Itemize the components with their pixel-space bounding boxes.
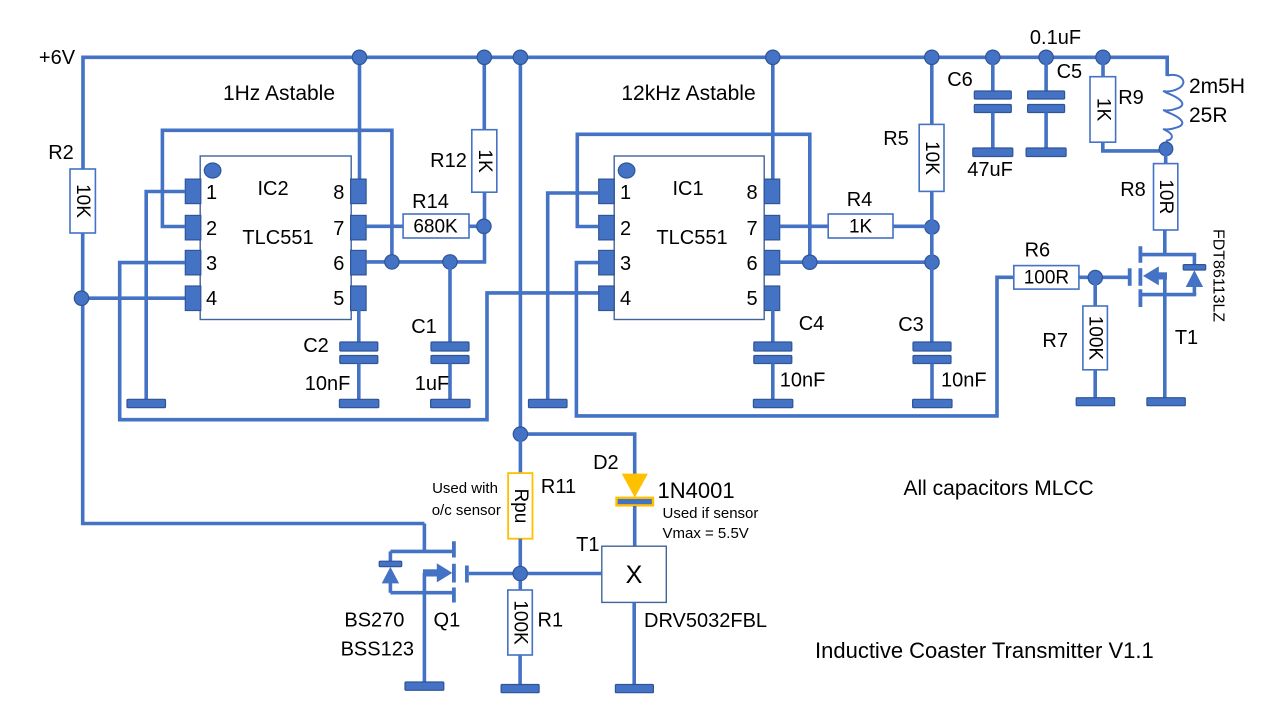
IC2 pin 2: [185, 215, 201, 240]
svg-text:1: 1: [206, 182, 217, 204]
svg-text:C4: C4: [799, 313, 825, 335]
T1 gate bar: [1128, 268, 1132, 286]
wire R1 to ground: [518, 655, 522, 685]
wire rail drop to IC1 pin8: [771, 57, 775, 180]
svg-text:47uF: 47uF: [967, 159, 1013, 181]
IC1 pin 5: [764, 286, 780, 311]
svg-text:10K: 10K: [921, 141, 942, 175]
wire IC2 pin3 output / lower-left rail to IC1 pin4: [120, 263, 599, 420]
resistor R2: [70, 169, 95, 233]
inductor L1 coil 2m5H: [1164, 75, 1184, 149]
IC2 pin 4: [185, 286, 201, 311]
svg-text:100K: 100K: [510, 600, 531, 645]
svg-text:FDT86113LZ: FDT86113LZ: [1209, 229, 1226, 322]
resistor R4: [828, 214, 893, 238]
junction dot coil/R9/R8: [1159, 142, 1173, 156]
wire R6 to T1 gate: [1079, 275, 1128, 279]
IC1 pin1 indicator dot: [618, 163, 635, 178]
svg-text:R14: R14: [412, 191, 449, 213]
wire Q1 source to ground: [423, 593, 427, 682]
svg-text:C5: C5: [1057, 61, 1083, 83]
junction dot rail/C6: [986, 50, 1000, 64]
wire IC2 pin4 feed: [82, 296, 186, 300]
capacitor C2: [357, 306, 361, 342]
Q1 body arrow: [437, 563, 453, 582]
IC1 pin 2: [599, 215, 615, 240]
ground DRV5032: [615, 685, 653, 693]
svg-text:3: 3: [620, 253, 631, 275]
T1 source stub: [1140, 293, 1196, 297]
wire X box to ground: [632, 602, 636, 684]
wire R2 bottom / left loop to Q1 drain: [83, 233, 425, 524]
svg-text:+6V: +6V: [39, 47, 76, 69]
IC1 pin 4: [599, 286, 615, 311]
svg-text:4: 4: [206, 288, 217, 310]
junction dot R6/R7: [1088, 270, 1102, 284]
resistor R11 Rpu: [519, 434, 523, 473]
Q1 channel segments: [452, 541, 456, 602]
svg-text:1: 1: [620, 182, 631, 204]
wire IC1 pin7 to R4: [780, 225, 829, 229]
resistor R5: [919, 124, 944, 191]
resistor R7: [1093, 278, 1097, 306]
svg-text:R8: R8: [1120, 179, 1146, 201]
svg-text:All capacitors MLCC: All capacitors MLCC: [904, 477, 1094, 500]
wire R14 right link: [469, 225, 485, 229]
IC2 pin 1: [185, 179, 201, 204]
svg-text:8: 8: [333, 182, 344, 204]
wire IC1 pin1 to ground: [548, 193, 599, 399]
svg-text:10nF: 10nF: [780, 370, 826, 392]
Q1 body diode: [389, 551, 393, 592]
IC2 pin 8: [351, 179, 367, 204]
T1 channel segments: [1139, 246, 1143, 307]
resistor R9: [1101, 57, 1105, 76]
IC2 pin 3: [185, 250, 201, 275]
junction dot R12/R14: [477, 219, 491, 233]
svg-text:2m5H: 2m5H: [1189, 75, 1245, 98]
sensor U2 DRV5032FBL box: [602, 546, 667, 602]
svg-text:Rpu: Rpu: [510, 488, 531, 523]
wire R11 to gate node: [518, 539, 522, 590]
junction dot rail/C5: [1039, 50, 1053, 64]
ground T1 source: [1147, 398, 1185, 406]
IC1 body: [614, 156, 764, 320]
svg-text:R1: R1: [538, 610, 564, 632]
svg-text:R6: R6: [1025, 240, 1051, 262]
junction dot rail/IC2 pin8: [352, 50, 366, 64]
svg-text:R9: R9: [1118, 87, 1144, 109]
svg-text:100K: 100K: [1085, 316, 1106, 361]
wire R8 to T1 drain: [1163, 230, 1167, 256]
junction dot rail/R9: [1096, 50, 1110, 64]
svg-text:10R: 10R: [1155, 179, 1176, 214]
IC2 pin 6: [351, 250, 367, 275]
svg-text:0.1uF: 0.1uF: [1030, 27, 1081, 49]
svg-text:8: 8: [746, 182, 757, 204]
IC2 pin 7: [351, 215, 367, 240]
junction dot rail/R12: [477, 50, 491, 64]
resistor R8: [1164, 149, 1168, 164]
svg-text:Inductive Coaster Transmitter: Inductive Coaster Transmitter V1.1: [815, 638, 1154, 663]
wire IC1 pin2 loop over top: [577, 134, 810, 262]
svg-text:25R: 25R: [1189, 104, 1228, 127]
IC1 pin 6: [764, 250, 780, 275]
svg-text:BSS123: BSS123: [341, 639, 414, 661]
wire D2 to X box: [633, 506, 637, 546]
svg-text:Used with: Used with: [432, 480, 498, 497]
wire IC2 pin2 loop over top to threshold node: [162, 130, 392, 262]
wire R11/D2 node horizontal: [520, 434, 634, 474]
svg-text:1K: 1K: [1092, 98, 1113, 122]
T1 body diode: [1193, 255, 1197, 295]
svg-text:R7: R7: [1042, 330, 1068, 352]
svg-text:IC2: IC2: [257, 178, 288, 200]
IC1 pin 3: [599, 250, 615, 275]
wire rail drop to R12: [482, 57, 486, 129]
T1 body arrow: [1143, 266, 1159, 285]
capacitor C1: [448, 262, 452, 342]
wire +6V top rail: [83, 57, 1167, 169]
svg-text:C1: C1: [411, 316, 437, 338]
ground R7: [1076, 398, 1114, 406]
svg-text:R12: R12: [430, 150, 467, 172]
svg-text:6: 6: [746, 253, 757, 275]
svg-text:DRV5032FBL: DRV5032FBL: [644, 610, 767, 632]
svg-text:C2: C2: [303, 335, 329, 357]
ground IC1 pin1: [529, 399, 568, 407]
wire R7 to ground: [1093, 370, 1097, 398]
resistor R6: [1014, 266, 1079, 290]
junction dot rail/R5: [925, 50, 939, 64]
svg-text:1N4001: 1N4001: [658, 478, 735, 503]
svg-text:R2: R2: [48, 142, 74, 164]
resistor R1: [508, 590, 533, 655]
junction dot rail/IC1 pin8: [766, 50, 780, 64]
svg-text:Used if sensor: Used if sensor: [663, 505, 759, 522]
svg-text:T1: T1: [576, 534, 599, 556]
junction dot pin2-loop / pin6 line: [385, 255, 399, 269]
wire IC2 pin7 to R14: [366, 225, 403, 229]
capacitor C6: [991, 57, 995, 91]
svg-text:100R: 100R: [1024, 268, 1069, 289]
wire IC1 pin6 line: [780, 260, 932, 264]
transistor T1 FDT86113LZ: [1130, 246, 1206, 307]
junction dot R2/IC2 pin4: [74, 291, 88, 305]
wire T1 source to ground: [1163, 295, 1167, 398]
wire gate node horizontal Q1 to X box: [469, 572, 602, 576]
IC1 pin 1: [599, 179, 615, 204]
svg-text:7: 7: [333, 218, 344, 240]
svg-text:IC1: IC1: [672, 178, 703, 200]
capacitor C4: [771, 306, 775, 342]
svg-text:7: 7: [746, 218, 757, 240]
svg-text:1K: 1K: [474, 149, 495, 173]
svg-text:Q1: Q1: [434, 610, 461, 632]
wire R4 to R5 node: [893, 225, 932, 229]
Q1 drain stub: [390, 550, 454, 554]
wire IC2 pin6 line: [366, 192, 484, 262]
Q1 gate bar: [465, 566, 469, 583]
resistor R12: [472, 130, 497, 193]
T1 drain stub: [1140, 253, 1196, 257]
svg-text:680K: 680K: [413, 217, 458, 238]
svg-text:R11: R11: [541, 476, 576, 498]
svg-text:BS270: BS270: [344, 610, 404, 632]
svg-text:1Hz Astable: 1Hz Astable: [223, 82, 335, 105]
junction dot C1 / pin6 line: [443, 255, 457, 269]
svg-text:10K: 10K: [72, 184, 93, 218]
svg-text:C3: C3: [898, 314, 924, 336]
junction dot R11/D2: [513, 427, 527, 441]
junction dot R4/R5: [925, 220, 939, 234]
svg-text:R5: R5: [883, 128, 909, 150]
ground IC2 pin1: [127, 399, 166, 407]
svg-text:10nF: 10nF: [305, 373, 351, 395]
svg-text:TLC551: TLC551: [656, 227, 727, 249]
Q1 source stub: [390, 591, 454, 595]
junction dot pin2-loop / pin6 line IC1: [803, 255, 817, 269]
wire rail drop to R5: [930, 57, 934, 124]
wire R5 bottom through nodes to C3: [930, 192, 934, 343]
svg-text:T1: T1: [1175, 327, 1198, 349]
wire IC1 pin3 output to lower rail to R6: [576, 263, 1013, 416]
IC2 body: [200, 156, 351, 320]
svg-text:1K: 1K: [849, 217, 873, 238]
svg-text:1uF: 1uF: [415, 373, 449, 395]
junction dot C3 / pin6 line: [925, 255, 939, 269]
IC2 pin1 indicator dot: [204, 163, 221, 178]
svg-text:12kHz Astable: 12kHz Astable: [621, 82, 755, 105]
svg-text:5: 5: [333, 288, 344, 310]
wire rail drop to IC2 pin8: [358, 57, 362, 180]
svg-text:4: 4: [620, 288, 631, 310]
svg-text:o/c sensor: o/c sensor: [432, 502, 501, 519]
diode D2 1N4001: [622, 474, 648, 498]
svg-text:5: 5: [746, 288, 757, 310]
capacitor C5: [1044, 57, 1048, 91]
svg-text:TLC551: TLC551: [242, 227, 313, 249]
svg-text:Vmax = 5.5V: Vmax = 5.5V: [663, 525, 749, 542]
svg-text:R4: R4: [847, 189, 873, 211]
svg-text:D2: D2: [593, 452, 619, 474]
svg-text:X: X: [626, 561, 643, 589]
svg-text:2: 2: [206, 218, 217, 240]
capacitor C3: [913, 342, 951, 351]
ground R1: [501, 685, 539, 693]
svg-text:10nF: 10nF: [941, 370, 987, 392]
wire R9 bottom to coil bottom node: [1103, 142, 1166, 151]
IC1 pin 7: [764, 215, 780, 240]
IC1 pin 8: [764, 179, 780, 204]
IC2 pin 5: [351, 286, 367, 311]
transistor Q1 BS270/BSS123: [379, 524, 467, 603]
Q1 drain feed: [423, 524, 427, 552]
wire IC2 pin1 to ground: [146, 192, 185, 400]
svg-text:3: 3: [206, 253, 217, 275]
junction dot R11/R1/gate: [513, 566, 527, 580]
resistor R14: [403, 214, 469, 238]
svg-text:2: 2: [620, 218, 631, 240]
svg-text:C6: C6: [947, 69, 973, 91]
junction dot rail/R11 branch: [513, 50, 527, 64]
svg-text:6: 6: [333, 253, 344, 275]
wire rail drop to R11/D2 node: [519, 57, 523, 434]
ground Q1: [405, 682, 444, 690]
